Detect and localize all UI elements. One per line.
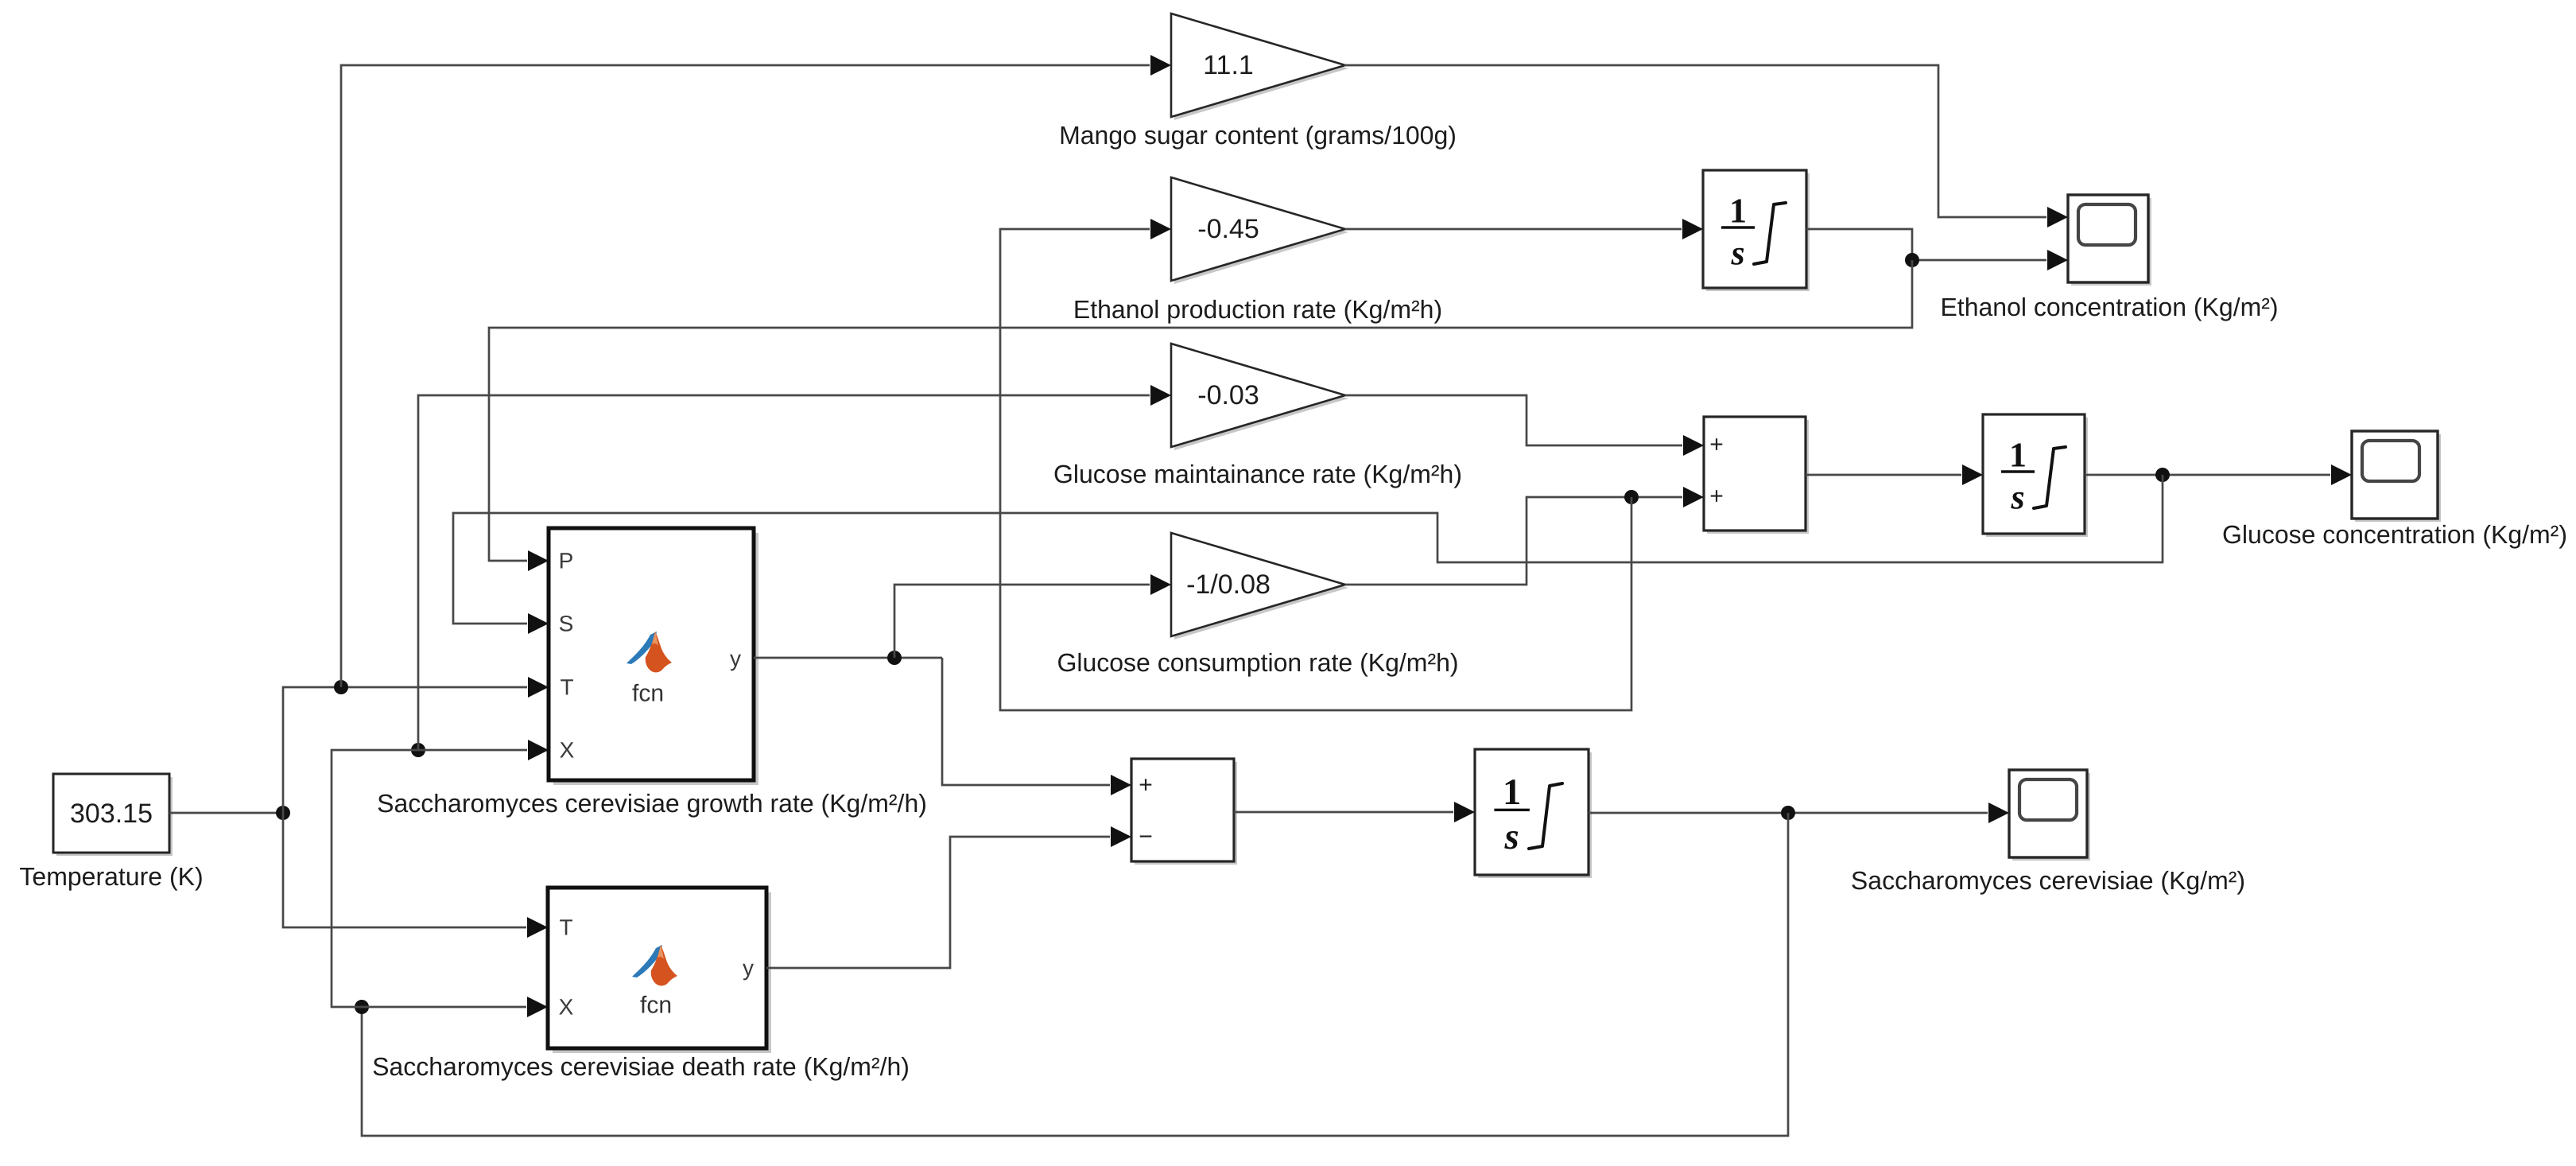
label Saccharomyces death rate: [372, 1052, 910, 1081]
svg-text:+: +: [1709, 432, 1724, 458]
junction dot saccharomyces concentration: [1781, 806, 1795, 820]
junction dot T net: [276, 806, 290, 820]
integrator block 1/s (saccharomyces): [1475, 749, 1592, 878]
sum block (saccharomyces), inputs + -: [1131, 759, 1237, 865]
junction dot glucose consumption tap: [1624, 490, 1639, 504]
svg-text:S: S: [559, 612, 574, 636]
svg-text:1: 1: [2009, 436, 2027, 475]
svg-text:y: y: [730, 647, 741, 671]
svg-text:1: 1: [1729, 192, 1747, 231]
svg-text:Mango sugar content (grams/100: Mango sugar content (grams/100g): [1059, 121, 1457, 150]
wire ethanol integrator output to scope input 2: [1806, 229, 2068, 270]
svg-text:y: y: [743, 956, 754, 981]
svg-text:+: +: [1139, 772, 1153, 799]
svg-text:Ethanol production rate (Kg/m²: Ethanol production rate (Kg/m²h): [1073, 295, 1442, 324]
junction dot X branch on growth X wire: [411, 743, 425, 757]
wire sacc integrator output to sacc scope: [1589, 803, 2009, 823]
svg-text:T: T: [559, 915, 572, 940]
label Saccharomyces growth rate: [377, 789, 927, 818]
wire sacc feedback down and left: [362, 813, 1788, 1136]
wire X branch up to gain -0.03 input: [418, 385, 1171, 750]
integrator block 1/s (ethanol): [1703, 170, 1810, 291]
svg-text:fcn: fcn: [640, 993, 672, 1019]
wire X feedback to death X input: [362, 997, 548, 1017]
wire ethanol loop back to growth P input: [489, 260, 1912, 571]
wire glucose integrator output to glucose scope: [2085, 464, 2352, 485]
label Mango sugar content: [1059, 121, 1457, 150]
junction dot T net to gain 11.1 tap: [334, 680, 348, 694]
wire growth y output: [754, 657, 942, 659]
svg-text:-0.45: -0.45: [1197, 214, 1259, 244]
svg-text:P: P: [559, 549, 574, 573]
svg-text:Glucose maintainance rate (Kg/: Glucose maintainance rate (Kg/m²h): [1053, 460, 1462, 488]
scope block Glucose concentration: [2352, 431, 2441, 522]
svg-text:−: −: [1139, 824, 1153, 850]
gain block -0.45 (Ethanol production rate): [1171, 177, 1348, 284]
junction dot ethanol concentration: [1905, 253, 1919, 267]
svg-text:Saccharomyces cerevisiae (Kg/m: Saccharomyces cerevisiae (Kg/m²): [1851, 866, 2245, 895]
wire constant output to T junction: [169, 812, 283, 814]
wire death y output to sacc sum minus input: [766, 826, 1131, 968]
svg-text:X: X: [560, 738, 575, 763]
svg-text:Temperature (K): Temperature (K): [19, 862, 203, 891]
wire growth rate down to sacc sum plus input: [942, 658, 1131, 795]
scope block Saccharomyces cerevisiae: [2009, 770, 2090, 861]
wire X feedback to growth X input: [332, 740, 549, 1007]
sum block (glucose), inputs + +: [1704, 417, 1809, 534]
svg-text:T: T: [560, 675, 573, 700]
svg-text:-0.03: -0.03: [1197, 380, 1259, 410]
junction dot glucose concentration: [2155, 468, 2170, 482]
svg-text:s: s: [1504, 816, 1519, 857]
label Ethanol concentration: [1940, 293, 2278, 321]
wire growth rate up to gain -1/0.08 input: [894, 574, 1171, 658]
svg-text:Glucose consumption rate (Kg/m: Glucose consumption rate (Kg/m²h): [1057, 648, 1458, 677]
svg-text:s: s: [2010, 478, 2024, 517]
svg-text:Saccharomyces cerevisiae death: Saccharomyces cerevisiae death rate (Kg/…: [372, 1052, 910, 1081]
gain block 11.1 (Mango sugar content): [1171, 14, 1348, 120]
svg-text:303.15: 303.15: [70, 799, 153, 829]
svg-text:+: +: [1709, 484, 1724, 510]
svg-text:X: X: [559, 995, 574, 1020]
svg-text:fcn: fcn: [632, 681, 664, 707]
wire tap up to gain 11.1 input: [341, 55, 1171, 687]
gain block -0.03 (Glucose maintainance rate): [1171, 344, 1348, 450]
junction dot growth rate: [887, 651, 902, 665]
gain block -1/0.08 (Glucose consumption rate): [1171, 533, 1348, 639]
wire glucose loop back to growth S input: [453, 475, 2163, 634]
label Ethanol production rate: [1073, 295, 1442, 324]
svg-text:Saccharomyces cerevisiae growt: Saccharomyces cerevisiae growth rate (Kg…: [377, 789, 927, 818]
wire gain -0.03 output to glucose sum input 1: [1345, 395, 1704, 456]
label Glucose consumption rate: [1057, 648, 1458, 677]
MATLAB Function block (Saccharomyces death rate), ports T X, output y: [548, 888, 771, 1053]
junction dot X feedback: [355, 1000, 369, 1014]
svg-text:Ethanol concentration (Kg/m²): Ethanol concentration (Kg/m²): [1940, 293, 2278, 321]
MATLAB Function block (Saccharomyces growth rate), ports P S T X, output y: [549, 528, 758, 785]
integrator block 1/s (glucose): [1983, 414, 2088, 537]
wire gain 11.1 output to ethanol scope input 1: [1344, 65, 2068, 227]
wire consumption tap down and left to gain -0.45 input: [1000, 219, 1631, 710]
constant block 303.15 (Temperature source): [53, 774, 173, 856]
label Glucose concentration: [2222, 520, 2567, 549]
label Temperature (K): [19, 862, 203, 891]
wire T net down to death T input: [283, 813, 548, 938]
svg-text:-1/0.08: -1/0.08: [1186, 569, 1271, 600]
wire gain -1/0.08 output to glucose sum input 2: [1345, 487, 1704, 585]
label Glucose maintainance rate: [1053, 460, 1462, 488]
svg-text:1: 1: [1503, 772, 1521, 813]
wire sacc sum output to sacc integrator: [1234, 802, 1475, 822]
wire gain -0.45 output to ethanol integrator: [1345, 219, 1703, 239]
wire T net up to growth T input: [283, 677, 549, 813]
svg-text:Glucose concentration (Kg/m²): Glucose concentration (Kg/m²): [2222, 520, 2567, 549]
svg-text:s: s: [1730, 234, 1744, 273]
wire glucose sum output to glucose integrator: [1806, 464, 1983, 485]
label Saccharomyces cerevisiae scope: [1851, 866, 2245, 895]
svg-text:11.1: 11.1: [1203, 50, 1254, 80]
scope block Ethanol concentration: [2068, 195, 2151, 286]
